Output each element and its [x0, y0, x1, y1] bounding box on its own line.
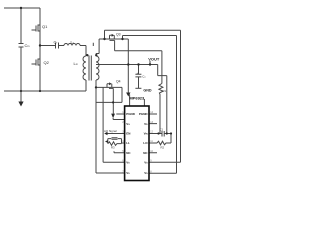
svg-text:+: +	[137, 71, 139, 75]
svg-text:VOUT: VOUT	[148, 57, 160, 62]
svg-text:R2: R2	[161, 146, 165, 150]
svg-text:Q3: Q3	[116, 33, 121, 37]
svg-text:AO Signal: AO Signal	[104, 129, 117, 133]
svg-text:R1: R1	[163, 89, 167, 93]
svg-text:LL: LL	[126, 141, 130, 145]
svg-text:PGND: PGND	[139, 112, 149, 116]
svg-text:Q4: Q4	[116, 80, 121, 84]
svg-text:Q2: Q2	[44, 60, 50, 65]
svg-text:EN: EN	[126, 132, 130, 136]
svg-text:R3: R3	[111, 145, 115, 149]
svg-text:GND: GND	[143, 88, 152, 92]
svg-text:LO: LO	[143, 141, 148, 145]
svg-text:PGND: PGND	[126, 112, 136, 116]
svg-text:MP6923: MP6923	[129, 96, 145, 101]
svg-text:C1: C1	[160, 128, 164, 132]
svg-text:Q1: Q1	[42, 24, 48, 29]
